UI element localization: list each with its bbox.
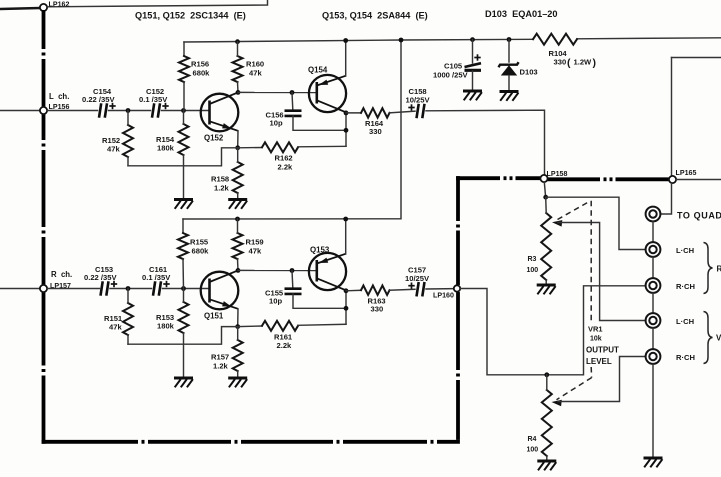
polarity + xyxy=(109,103,115,109)
svg-text:2.2k: 2.2k xyxy=(278,163,294,172)
svg-text:47k: 47k xyxy=(249,69,262,78)
svg-text:(: ( xyxy=(567,57,571,69)
wire xyxy=(237,371,239,378)
wire xyxy=(47,288,100,290)
node junction collector xyxy=(236,90,241,95)
wire xyxy=(298,324,346,325)
node junction xyxy=(290,268,295,273)
svg-text:47k: 47k xyxy=(109,323,122,332)
ground xyxy=(537,285,556,294)
svg-text:100: 100 xyxy=(527,447,539,454)
node junction xyxy=(235,39,240,44)
svg-text:LP165: LP165 xyxy=(676,169,697,177)
wire xyxy=(238,147,262,149)
resistor R104 xyxy=(533,34,577,45)
node junction xyxy=(126,108,131,113)
resistor R155 xyxy=(178,233,188,259)
node junction xyxy=(544,372,549,377)
svg-text:1.2k: 1.2k xyxy=(213,362,229,371)
wire bus to LP158 xyxy=(456,176,500,180)
svg-text:VR1: VR1 xyxy=(588,325,603,334)
wire bus LP158 to LP165 xyxy=(547,177,600,181)
node junction xyxy=(543,195,548,200)
wire rail stub R155 xyxy=(182,219,184,233)
resistor R151 xyxy=(123,303,133,335)
resistor R157 xyxy=(233,340,243,371)
svg-text:680k: 680k xyxy=(193,69,211,78)
svg-text:L·CH: L·CH xyxy=(676,317,694,326)
svg-text:330: 330 xyxy=(369,127,382,136)
diode D103 zener xyxy=(499,62,519,75)
svg-text:100: 100 xyxy=(527,267,539,274)
wire xyxy=(652,364,654,458)
resistor R159 xyxy=(233,233,243,259)
svg-text:2.2k: 2.2k xyxy=(277,341,293,350)
wire xyxy=(293,116,346,130)
resistor R164 xyxy=(361,108,390,117)
svg-text:R3: R3 xyxy=(528,256,537,263)
wire xyxy=(183,333,185,378)
svg-text:R156: R156 xyxy=(191,60,209,69)
wire xyxy=(237,42,239,56)
svg-text:LP162: LP162 xyxy=(49,1,70,9)
wire xyxy=(47,0,268,7)
wire xyxy=(237,148,239,162)
wire xyxy=(346,289,361,292)
svg-text:): ) xyxy=(593,57,597,69)
node LP162 xyxy=(40,4,47,11)
ground xyxy=(174,200,193,209)
svg-text:L·CH: L·CH xyxy=(676,246,694,255)
svg-text:TO QUAD: TO QUAD xyxy=(677,211,721,221)
wire xyxy=(544,182,545,197)
svg-text:R159: R159 xyxy=(246,238,264,247)
node junction collector xyxy=(236,268,241,273)
capacitor C161 xyxy=(153,281,161,295)
ground xyxy=(228,200,247,209)
svg-text:R·CH: R·CH xyxy=(676,353,695,362)
polarity + xyxy=(408,104,414,110)
svg-text:47k: 47k xyxy=(107,145,120,154)
svg-text:R·CH: R·CH xyxy=(676,282,695,291)
svg-text:330: 330 xyxy=(371,305,384,314)
wire collector Q153 xyxy=(345,290,347,324)
resistor R160 xyxy=(233,56,243,82)
svg-text:R158: R158 xyxy=(211,175,229,184)
polarity + xyxy=(408,283,414,289)
svg-text:1000 /25V: 1000 /25V xyxy=(433,71,469,80)
svg-text:OUTPUT: OUTPUT xyxy=(586,346,619,355)
svg-text:0.1 /35V: 0.1 /35V xyxy=(139,95,168,104)
wire xyxy=(346,112,361,114)
wire xyxy=(546,375,548,390)
wire feedback xyxy=(128,148,238,166)
wire box xyxy=(672,57,721,59)
wire xyxy=(110,288,152,290)
svg-text:10/25V: 10/25V xyxy=(406,96,431,105)
resistor R152 xyxy=(123,125,133,157)
wire xyxy=(237,259,240,271)
svg-text:LP158: LP158 xyxy=(547,170,568,178)
svg-text:D103 EQA01–20: D103 EQA01–20 xyxy=(485,9,558,19)
svg-text:R155: R155 xyxy=(190,238,209,247)
wire bus bottom xyxy=(42,440,138,444)
svg-text:330: 330 xyxy=(554,58,567,67)
wire xyxy=(127,111,129,126)
wire xyxy=(127,289,129,304)
transistor Q151 xyxy=(201,270,239,309)
wire xyxy=(182,259,185,289)
brace rec xyxy=(704,243,713,294)
svg-text:Q153, Q154 2SA844 (E): Q153, Q154 2SA844 (E) xyxy=(322,11,428,21)
wire xyxy=(508,76,510,92)
capacitor C158 xyxy=(417,104,425,118)
wire xyxy=(652,222,654,243)
wire xyxy=(237,219,239,233)
svg-text:180k: 180k xyxy=(157,144,175,153)
resistor R154 xyxy=(179,124,189,155)
wire LP160 to R4 xyxy=(460,286,646,375)
svg-text:10p: 10p xyxy=(270,119,283,128)
wire to jack L-CH rec xyxy=(546,197,646,249)
wiper arrow R3 xyxy=(552,220,562,227)
resistor R156 xyxy=(179,56,189,82)
wire xyxy=(162,110,210,112)
wire xyxy=(426,288,454,290)
resistor R163 xyxy=(361,286,390,295)
node junction xyxy=(343,38,348,43)
capacitor C155 xyxy=(285,289,302,294)
wire xyxy=(676,179,721,181)
wire xyxy=(127,157,129,166)
ground xyxy=(537,461,556,470)
wire rail right of R104 xyxy=(577,38,721,39)
ground xyxy=(500,92,519,101)
svg-text:1.2k: 1.2k xyxy=(214,184,230,193)
wire input R xyxy=(0,288,40,290)
svg-text:10k: 10k xyxy=(590,336,602,343)
wire xyxy=(298,145,346,148)
wire xyxy=(472,71,474,91)
node junction xyxy=(126,286,131,291)
node LP157 xyxy=(40,285,47,292)
wire xyxy=(291,271,294,288)
node junction emitter xyxy=(235,145,240,150)
svg-text:0.22 /35V: 0.22 /35V xyxy=(82,95,115,104)
wire xyxy=(238,325,262,328)
node LP160 xyxy=(454,285,460,291)
svg-text:10/25V: 10/25V xyxy=(405,274,430,283)
resistor R161 xyxy=(262,321,298,331)
wire xyxy=(127,335,129,344)
node junction xyxy=(181,286,186,291)
svg-text:V: V xyxy=(716,334,721,343)
wire xyxy=(183,289,185,303)
svg-text:Q152: Q152 xyxy=(204,134,224,143)
polarity + xyxy=(474,54,480,60)
wire wiper R3 xyxy=(558,223,646,321)
connector jack L-CH video xyxy=(646,313,661,328)
transistor Q154 xyxy=(309,75,346,112)
node junction xyxy=(344,288,349,293)
polarity + xyxy=(163,281,169,287)
wire xyxy=(237,82,240,93)
wire xyxy=(109,110,151,112)
wire gang dashed vertical xyxy=(590,201,592,322)
node junction xyxy=(343,217,348,222)
wire emitter xyxy=(237,309,239,327)
wire emitter Q154 xyxy=(345,41,347,77)
wire xyxy=(545,280,547,285)
resistor R158 xyxy=(233,162,243,193)
svg-text:LP160: LP160 xyxy=(433,292,454,300)
wire wiper R4 xyxy=(558,357,646,402)
polarity + xyxy=(162,103,168,109)
resistor R3 potentiometer xyxy=(541,213,551,280)
svg-text:C105: C105 xyxy=(444,62,463,71)
capacitor C154 xyxy=(99,103,107,117)
svg-text:680k: 680k xyxy=(192,247,210,256)
wire emitter xyxy=(237,131,239,148)
node LP158 xyxy=(540,175,547,182)
node junction emitter xyxy=(235,324,240,329)
wire emitter Q153 xyxy=(345,219,347,254)
wire xyxy=(291,93,294,110)
svg-text:LEVEL: LEVEL xyxy=(586,357,612,366)
svg-text:180k: 180k xyxy=(157,322,175,331)
wiper arrow R4 xyxy=(552,400,562,407)
wire xyxy=(426,110,545,175)
transistor Q153 xyxy=(309,253,346,290)
wire xyxy=(545,197,548,213)
svg-text:10p: 10p xyxy=(269,297,282,306)
wire bus right vertical xyxy=(456,380,460,440)
brace video xyxy=(704,312,713,364)
wire xyxy=(472,40,474,63)
wire feedback xyxy=(128,327,238,345)
wire xyxy=(183,155,185,199)
svg-text:D103: D103 xyxy=(520,68,538,77)
node junction xyxy=(344,111,349,116)
wire xyxy=(390,111,416,113)
ground xyxy=(463,91,482,100)
capacitor C157 xyxy=(417,282,425,296)
capacitor C152 xyxy=(152,103,160,117)
svg-text:47k: 47k xyxy=(249,247,262,256)
svg-text:Q154: Q154 xyxy=(308,66,328,75)
wire xyxy=(652,293,654,313)
node junction xyxy=(181,108,186,113)
wire xyxy=(546,456,548,461)
node junction rail x401 xyxy=(399,38,404,43)
capacitor C105 xyxy=(465,63,482,70)
wire xyxy=(47,110,98,112)
svg-text:0.1 /35V: 0.1 /35V xyxy=(142,273,171,282)
wire rail xyxy=(184,39,533,42)
resistor R153 xyxy=(179,302,189,333)
wire bus left xyxy=(42,10,46,49)
svg-text:R ch.: R ch. xyxy=(51,270,72,279)
svg-text:Q151, Q152 2SC1344 (E): Q151, Q152 2SC1344 (E) xyxy=(135,11,246,21)
polarity + xyxy=(111,281,117,287)
wire gang dashed xyxy=(558,201,591,220)
node junction xyxy=(470,37,475,42)
connector jack TO QUAD xyxy=(646,207,661,222)
wire gang dashed to R4 xyxy=(557,378,592,400)
wire gang dashed vertical lower xyxy=(590,367,592,378)
wire xyxy=(671,58,673,177)
wire xyxy=(237,327,239,340)
wire xyxy=(293,294,346,308)
wire base collector to Q153 xyxy=(238,269,317,271)
node junction xyxy=(235,217,240,222)
connector jack R-CH video xyxy=(646,349,661,364)
svg-text:R: R xyxy=(717,265,721,274)
wire xyxy=(237,193,239,199)
svg-text:1.2W: 1.2W xyxy=(574,58,593,67)
wire xyxy=(652,328,654,349)
resistor R162 xyxy=(262,142,298,152)
wire xyxy=(183,111,185,125)
svg-text:Q151: Q151 xyxy=(204,312,224,321)
capacitor C156 xyxy=(285,111,302,116)
ground xyxy=(644,458,663,467)
resistor R4 potentiometer xyxy=(542,390,552,456)
svg-text:0.22 /35V: 0.22 /35V xyxy=(84,273,117,282)
svg-text:R160: R160 xyxy=(246,60,264,69)
node junction xyxy=(507,37,512,42)
wire xyxy=(652,257,654,278)
wire xyxy=(163,288,210,290)
connector jack R-CH rec xyxy=(646,278,661,293)
wire input L xyxy=(0,110,40,112)
wire xyxy=(183,82,185,111)
transistor Q152 xyxy=(201,92,239,131)
svg-text:L ch.: L ch. xyxy=(49,92,69,101)
capacitor C153 xyxy=(101,281,109,295)
svg-text:Q153: Q153 xyxy=(310,246,330,255)
wire base collector to Q154 xyxy=(238,91,317,93)
connector jack L-CH rec xyxy=(646,242,661,257)
ground xyxy=(228,378,247,387)
node LP156 xyxy=(40,107,47,114)
node junction xyxy=(344,128,349,133)
ground xyxy=(174,378,193,387)
node LP165 xyxy=(669,176,676,183)
wire supply vertical xyxy=(183,40,401,219)
node junction xyxy=(344,306,349,311)
wire rail stub R156 xyxy=(183,42,185,56)
wire xyxy=(508,40,510,63)
wire xyxy=(661,183,672,214)
svg-text:R157: R157 xyxy=(211,353,229,362)
wire xyxy=(0,8,40,9)
svg-text:R4: R4 xyxy=(528,436,537,443)
svg-text:R162: R162 xyxy=(275,154,293,163)
node junction xyxy=(290,90,295,95)
wire xyxy=(390,288,416,291)
wire collector Q154 xyxy=(345,112,347,146)
